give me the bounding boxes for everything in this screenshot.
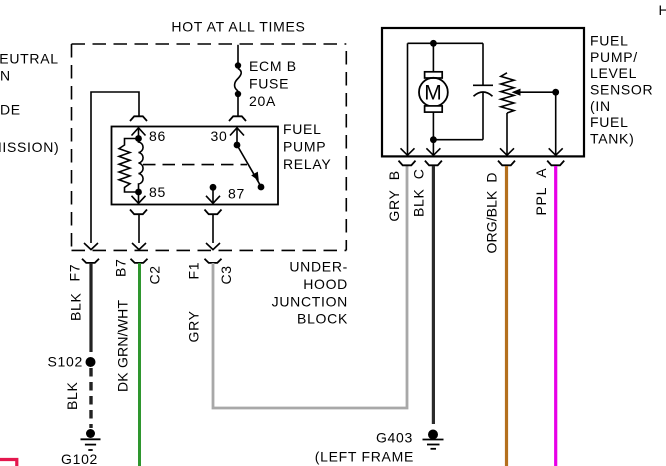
wire: return bus to capacitor <box>433 139 483 141</box>
motor M (fuel pump) <box>419 43 448 155</box>
svg-text:ECM B: ECM B <box>249 58 297 74</box>
svg-text:S102: S102 <box>48 354 84 370</box>
underhood junction block dashed box <box>72 44 347 250</box>
svg-text:B7: B7 <box>113 258 129 277</box>
svg-text:G403: G403 <box>376 430 413 446</box>
wire: GRY B branch with terminal arrow <box>401 43 415 155</box>
ground G102 <box>81 429 101 450</box>
wire: junction block feed to relay pin 86 <box>84 92 139 250</box>
connector below relay pin 87 <box>205 210 222 215</box>
svg-text:(LEFT FRAME: (LEFT FRAME <box>315 449 414 465</box>
connector F7 below junction block <box>82 259 99 263</box>
wire DK GRN/WHT <box>138 263 141 466</box>
connector above relay pin 86 <box>130 116 147 121</box>
svg-text:20A: 20A <box>249 93 276 109</box>
svg-text:BLK C: BLK C <box>411 168 427 217</box>
fuel level sensor resistor <box>500 73 514 156</box>
relay pin 30 terminal arrow <box>230 128 244 149</box>
relay coil <box>119 139 143 193</box>
svg-text:DE: DE <box>0 101 21 117</box>
svg-text:MISSION): MISSION) <box>0 139 59 155</box>
svg-text:ORG/BLK D: ORG/BLK D <box>484 172 500 253</box>
svg-text:FUEL: FUEL <box>590 114 629 130</box>
svg-text:M: M <box>424 82 442 105</box>
svg-text:85: 85 <box>149 184 166 200</box>
relay pin 86 terminal arrow <box>132 128 146 142</box>
svg-text:BLK: BLK <box>64 381 80 410</box>
svg-text:30: 30 <box>211 128 228 144</box>
wire PPL <box>554 166 557 466</box>
svg-text:F1: F1 <box>186 262 202 280</box>
connector C2 below junction block <box>131 259 148 263</box>
wire: internal supply bus <box>408 42 484 44</box>
node: motor return junction <box>430 136 437 143</box>
svg-text:(IN: (IN <box>590 98 611 114</box>
svg-text:N: N <box>0 68 11 84</box>
svg-text:RELAY: RELAY <box>283 156 331 172</box>
label FUEL PUMP/LEVEL SENSOR (IN FUEL TANK) <box>590 32 653 146</box>
connector B below fuel pump box <box>399 161 416 166</box>
wire: relay pin 85 to junction block edge <box>132 214 146 249</box>
wire ORG/BLK <box>505 166 508 466</box>
level sensor wiper arrow <box>512 89 560 96</box>
wire BLK C to ground G403 <box>432 166 435 424</box>
fuse ECM B 20A <box>235 62 242 97</box>
label FUEL PUMP RELAY <box>283 121 331 172</box>
wire: relay pin 87 to junction block edge <box>206 214 220 249</box>
connector A below fuel pump box <box>547 161 564 166</box>
label ECM B / FUSE / 20A <box>249 58 297 109</box>
svg-text:UNDER-: UNDER- <box>289 259 348 275</box>
connector C below fuel pump box <box>425 161 442 166</box>
splice S102 <box>86 357 96 367</box>
svg-text:C2: C2 <box>147 265 163 284</box>
capacitor (noise suppressor) <box>473 43 493 139</box>
wire: battery feed from box top to fuse <box>237 45 239 63</box>
svg-text:GRY: GRY <box>186 310 202 342</box>
svg-text:HOOD: HOOD <box>303 276 348 292</box>
wire: fuse to relay pin 30 <box>237 97 239 116</box>
svg-text:DK GRN/WHT: DK GRN/WHT <box>115 300 131 392</box>
connector above relay pin 30 <box>229 116 246 121</box>
relay pin 85 terminal arrow <box>132 189 146 204</box>
connector C3 below junction block <box>205 259 222 263</box>
svg-text:BLOCK: BLOCK <box>297 311 348 327</box>
svg-text:HOT AT ALL TIMES: HOT AT ALL TIMES <box>171 18 305 34</box>
svg-text:JUNCTION: JUNCTION <box>272 293 348 309</box>
node: pump supply junction <box>430 40 437 47</box>
svg-text:TANK): TANK) <box>590 131 634 147</box>
svg-text:GRY B: GRY B <box>386 170 402 221</box>
svg-text:FUEL: FUEL <box>590 32 629 48</box>
wire GRY from C3 to fuel pump <box>213 166 407 408</box>
wire: PPL A branch with terminal arrow <box>549 92 563 155</box>
label UNDER-HOOD JUNCTION BLOCK <box>272 259 348 327</box>
svg-text:C3: C3 <box>218 265 234 284</box>
svg-text:LEVEL: LEVEL <box>590 65 637 81</box>
relay pin 87 terminal arrow <box>206 184 220 204</box>
svg-text:G102: G102 <box>61 451 98 466</box>
adjacent component box corner (crimson) <box>0 460 17 466</box>
svg-text:PPL A: PPL A <box>533 168 549 216</box>
svg-text:FUEL: FUEL <box>283 121 322 137</box>
svg-text:NEUTRAL: NEUTRAL <box>0 51 59 67</box>
wire BLK F7 to splice S102 <box>89 263 92 352</box>
relay switch arm <box>237 145 264 190</box>
svg-text:FUSE: FUSE <box>249 76 289 92</box>
svg-text:87: 87 <box>228 186 245 202</box>
svg-text:PUMP/: PUMP/ <box>590 49 638 65</box>
fuel pump relay box <box>112 127 279 205</box>
svg-text:86: 86 <box>149 128 166 144</box>
ground G403 <box>423 430 444 449</box>
svg-text:PUMP: PUMP <box>283 139 326 155</box>
wire BLK dashed S102 to G102 <box>89 368 92 428</box>
relay internal dashed link <box>143 164 247 166</box>
connector D below fuel pump box <box>498 161 515 166</box>
svg-text:H: H <box>659 2 666 18</box>
svg-text:BLK: BLK <box>68 292 84 321</box>
svg-text:SENSOR: SENSOR <box>590 81 653 97</box>
svg-text:F7: F7 <box>67 264 83 282</box>
connector below relay pin 85 <box>130 210 147 215</box>
fuel pump / level sensor box <box>382 28 584 156</box>
